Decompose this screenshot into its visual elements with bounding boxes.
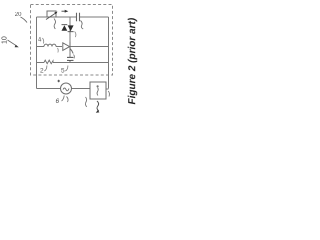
wire left branch vertical xyxy=(36,17,38,89)
wire diac branch vertical xyxy=(69,17,71,63)
label 34 (below rheostat) xyxy=(54,19,55,30)
wire bottom rail xyxy=(37,62,109,64)
resistor R2 xyxy=(44,60,53,64)
AC source V1 xyxy=(61,83,72,94)
capacitor C2 (diac branch) xyxy=(67,57,74,60)
lamp filament inside load xyxy=(97,85,99,87)
rheostat R1 box xyxy=(47,11,56,17)
label 36 (right of diac) xyxy=(75,32,76,38)
svg-text:Figure 2 (prior art): Figure 2 (prior art) xyxy=(127,17,138,104)
svg-text:6: 6 xyxy=(56,98,60,105)
wire top rail xyxy=(37,16,109,18)
numeral 30 leader (gate) xyxy=(73,55,76,59)
diac D1 xyxy=(62,25,74,32)
capacitor C1 (series, top rail) xyxy=(77,13,80,22)
label 70 (right of load box) xyxy=(108,91,109,97)
current direction arrow xyxy=(62,10,67,12)
wire right branch vertical xyxy=(108,17,110,89)
inductor L1 xyxy=(44,44,56,46)
AC source plus mark xyxy=(58,80,60,82)
svg-text:5: 5 xyxy=(61,68,65,75)
triac Q1 xyxy=(63,42,73,54)
label 14 (left of load box) xyxy=(85,97,86,107)
load box xyxy=(90,82,106,99)
rheostat arrow xyxy=(46,13,57,20)
label 12 (below load box) with arrow xyxy=(97,101,99,111)
label 44 leader (below middle rail) xyxy=(57,48,60,53)
dashed enclosure box (dimmer housing) xyxy=(31,5,113,76)
svg-text:2: 2 xyxy=(40,68,44,75)
label 32 (below capacitor) xyxy=(81,21,84,30)
svg-text:10: 10 xyxy=(2,36,9,44)
wire middle rail xyxy=(37,46,109,48)
wire AC source leads xyxy=(37,88,109,91)
